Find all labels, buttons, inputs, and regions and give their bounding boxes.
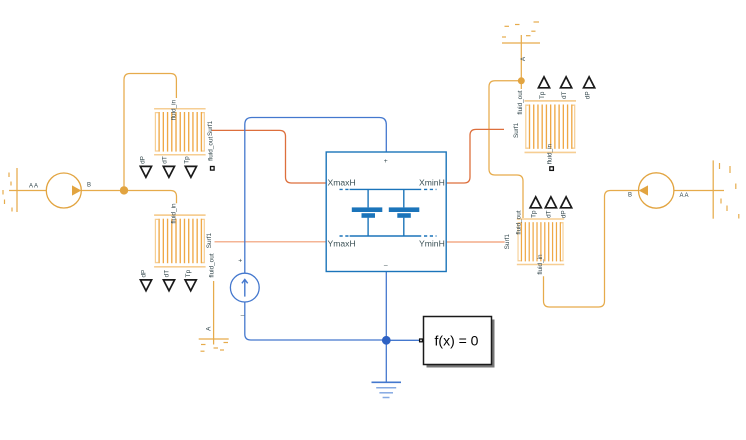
svg-text:XmaxH: XmaxH <box>328 178 356 188</box>
svg-text:+: + <box>384 158 388 165</box>
svg-text:dP: dP <box>140 156 147 164</box>
svg-text:fluid_out: fluid_out <box>516 210 523 234</box>
svg-text:fluid_out: fluid_out <box>209 253 216 277</box>
svg-text:Tp: Tp <box>183 156 190 164</box>
svg-text:fluid_in: fluid_in <box>171 203 178 224</box>
svg-text:B: B <box>87 183 91 189</box>
svg-text:dT: dT <box>163 270 170 278</box>
svg-text:f(x) = 0: f(x) = 0 <box>435 332 479 348</box>
svg-text:Tp: Tp <box>531 210 538 218</box>
svg-text:B: B <box>628 192 632 198</box>
svg-text:dT: dT <box>161 156 168 164</box>
svg-text:dP: dP <box>141 270 148 278</box>
svg-text:dP: dP <box>561 210 568 218</box>
svg-text:dT: dT <box>546 210 553 218</box>
svg-text:fluid_in: fluid_in <box>170 99 177 120</box>
svg-text:A A: A A <box>29 184 38 190</box>
svg-text:dP: dP <box>584 91 591 99</box>
svg-text:Surf1: Surf1 <box>206 233 213 249</box>
svg-text:fluid_in: fluid_in <box>537 254 544 275</box>
svg-text:A: A <box>520 56 527 61</box>
svg-text:–: – <box>384 262 388 269</box>
svg-text:–: – <box>241 313 245 320</box>
svg-text:Tp: Tp <box>539 91 546 99</box>
svg-text:Surf1: Surf1 <box>207 120 214 136</box>
svg-text:dT: dT <box>561 91 568 99</box>
svg-text:Surf1: Surf1 <box>513 122 520 138</box>
svg-text:YmaxH: YmaxH <box>328 238 356 248</box>
svg-text:Surf1: Surf1 <box>504 234 511 250</box>
svg-text:fluid_out: fluid_out <box>208 136 215 160</box>
svg-text:XminH: XminH <box>419 178 445 188</box>
svg-text:Tp: Tp <box>185 269 192 277</box>
svg-text:fluid_out: fluid_out <box>517 90 524 114</box>
svg-text:+: + <box>238 258 242 265</box>
svg-text:fluid_in: fluid_in <box>547 143 554 164</box>
svg-text:A: A <box>205 326 212 331</box>
svg-text:YminH: YminH <box>419 238 445 248</box>
svg-text:A A: A A <box>680 193 689 199</box>
